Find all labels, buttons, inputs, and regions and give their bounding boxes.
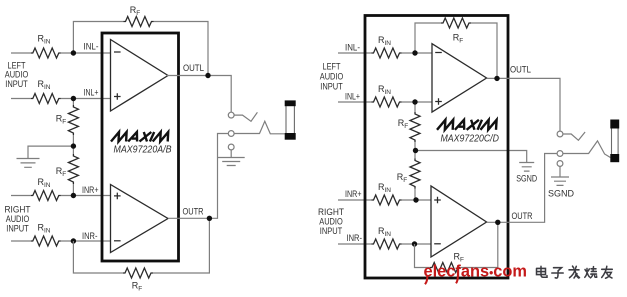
wire: OUTR to jack <box>168 134 228 219</box>
wire: OUTL to jack <box>167 76 231 113</box>
resistor RF (right bottom feedback) <box>430 263 460 273</box>
wire: right feedback top (INL- node to RF to OUTL node) <box>415 23 497 78</box>
jack contact tip (left, with switch) <box>228 112 234 118</box>
resistor RIN (left INR-) <box>31 236 61 246</box>
svg-text:INR+: INR+ <box>345 189 362 199</box>
node: left divider midpoint <box>71 143 76 148</box>
jack contact sleeve (right) <box>557 161 563 167</box>
op-amp U2A (right) <box>432 44 487 112</box>
MAXIM logo (left) <box>111 132 168 142</box>
wire: right INL- input line <box>338 52 432 54</box>
node: right INL+ junction <box>412 99 417 104</box>
svg-text:LEFT: LEFT <box>323 62 341 72</box>
svg-text:INR+: INR+ <box>82 185 99 195</box>
svg-text:OUTL: OUTL <box>510 65 531 75</box>
resistor RIN (right INL-) <box>372 48 402 58</box>
resistor RF (left bottom feedback) <box>123 268 153 278</box>
svg-text:AUDIO: AUDIO <box>5 70 29 80</box>
wire: right INR+ input line <box>338 199 431 201</box>
resistor RF (left upper divider) <box>68 105 78 135</box>
ground (left jack sleeve) <box>230 150 232 157</box>
svg-text:RIGHT: RIGHT <box>5 205 31 215</box>
wire: right RF divider chain <box>414 102 416 200</box>
node: OUTL junction <box>205 73 210 78</box>
svg-text:elecfans•com: elecfans•com <box>424 263 528 281</box>
svg-text:INL+: INL+ <box>84 88 99 98</box>
svg-text:MAX97220C/D: MAX97220C/D <box>440 134 499 145</box>
svg-text:AUDIO: AUDIO <box>6 214 30 224</box>
svg-text:INPUT: INPUT <box>320 226 343 236</box>
headphone plug (left) <box>286 103 294 136</box>
op-amp U1B (left) <box>111 185 169 253</box>
resistor RIN (left INL-) <box>31 48 61 58</box>
wire: right OUTL to jack <box>487 78 560 131</box>
svg-text:INPUT: INPUT <box>320 82 343 92</box>
wire: left bottom feedback (INR- node to RF to OUTR node) <box>73 218 209 273</box>
node: left INR- junction <box>71 238 76 243</box>
IC box MAX97220A/B <box>102 33 179 261</box>
node: right INR- junction <box>412 241 417 246</box>
MAXIM logo (right) <box>437 120 497 130</box>
node: OUTR junction <box>207 216 212 221</box>
node: right divider midpoint <box>413 148 418 153</box>
wire: right bottom feedback (INR- node to RF to OUTR node) <box>415 222 498 267</box>
headphone plug (right) <box>612 126 619 156</box>
wire: left divider midpoint to ground <box>28 146 73 158</box>
wire: left INR+ input line <box>11 195 111 197</box>
node: right INR+ junction <box>413 197 418 202</box>
svg-text:SGND: SGND <box>516 174 537 184</box>
svg-text:OUTR: OUTR <box>512 211 533 221</box>
jack contact ring (left) <box>228 131 234 137</box>
node: right OUTL junction <box>494 76 499 81</box>
IC box MAX97220C/D <box>365 16 508 279</box>
op-amp U1A (left) <box>111 40 169 112</box>
jack contact tip (right, with switch) <box>557 131 563 137</box>
svg-text:SGND: SGND <box>548 189 574 199</box>
svg-text:RIGHT: RIGHT <box>318 207 344 217</box>
resistor RIN (right INL+) <box>372 97 402 107</box>
node: left INL- junction <box>71 50 76 55</box>
wire: left RF divider chain <box>72 99 74 196</box>
node: left INL+ junction <box>71 96 76 101</box>
resistor RF (left top feedback) <box>124 17 154 27</box>
resistor RIN (right INR-) <box>372 239 402 249</box>
ground (left divider) <box>17 159 40 168</box>
wire: left INL- input line <box>11 52 110 54</box>
watermark chinese characters <box>537 266 548 277</box>
wire: right OUTR to jack <box>487 154 557 223</box>
svg-text:AUDIO: AUDIO <box>319 217 343 227</box>
resistor RF (right top feedback) <box>441 18 471 28</box>
wire: right INR- input line <box>338 243 431 245</box>
svg-text:MAX97220A/B: MAX97220A/B <box>114 144 172 155</box>
svg-text:OUTL: OUTL <box>183 63 204 73</box>
wire: right INL+ input line <box>338 101 432 103</box>
resistor RIN (left INR+) <box>31 191 61 201</box>
node: right OUTR junction <box>495 220 500 225</box>
resistor RIN (left INL+) <box>31 94 61 104</box>
jack contact ring (right) <box>557 151 563 157</box>
op-amp U2B (right) <box>431 186 487 257</box>
wire: left INL+ input line <box>11 98 110 100</box>
wire: left feedback top (INL- node to RF to OUTL node) <box>73 22 208 76</box>
node: right INL- junction <box>412 50 417 55</box>
svg-text:INR-: INR- <box>82 231 98 241</box>
svg-text:INR-: INR- <box>347 233 363 243</box>
svg-text:AUDIO: AUDIO <box>320 72 344 82</box>
watermark red drip marks <box>425 276 458 284</box>
resistor RF (right lower divider) <box>410 159 420 189</box>
svg-text:INL-: INL- <box>84 42 99 52</box>
svg-text:INL+: INL+ <box>345 92 360 102</box>
wire: left INR- input line <box>11 240 111 242</box>
resistor RF (left lower divider) <box>68 154 78 184</box>
wire: right divider midpoint to SGND <box>416 151 527 163</box>
svg-text:INPUT: INPUT <box>6 224 29 234</box>
svg-text:OUTR: OUTR <box>183 207 204 217</box>
svg-text:INL-: INL- <box>345 43 360 53</box>
node: left INR+ junction <box>71 193 76 198</box>
svg-text:INPUT: INPUT <box>5 79 28 89</box>
jack contact sleeve (left) <box>228 144 234 150</box>
resistor RIN (right INR+) <box>372 195 402 205</box>
ground SGND (right jack sleeve) <box>559 166 561 176</box>
resistor RF (right upper divider) <box>410 112 420 142</box>
ground SGND (divider) <box>519 163 534 172</box>
